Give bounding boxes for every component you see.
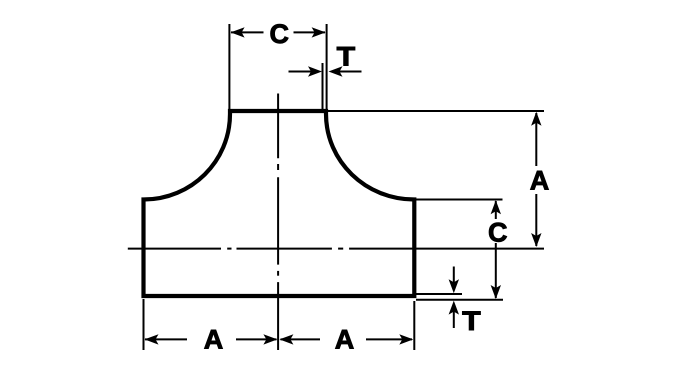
extension line run bottom inner (bottom T)	[416, 293, 462, 295]
bottom A right arrow at center	[263, 334, 277, 344]
bottom A left arrow at center	[279, 334, 293, 344]
right A up arrow	[531, 112, 541, 126]
extension line bottom left A	[143, 299, 145, 350]
extension line from branch top to right A	[328, 110, 544, 112]
right C down arrow	[491, 285, 501, 299]
top T left-pointing arrow	[329, 66, 343, 76]
dimension line top C (two segments with label gap)	[231, 31, 264, 33]
extension line right of top C	[326, 24, 328, 109]
bottom T arrow tails	[453, 267, 455, 286]
svg-text:C: C	[488, 217, 508, 247]
top C left arrow	[231, 27, 245, 37]
thin lines	[128, 24, 544, 350]
right A down arrow	[531, 233, 541, 247]
right C up arrow	[491, 200, 501, 214]
horizontal centerline (dash-dot)	[128, 248, 221, 250]
top C right arrow	[312, 27, 326, 37]
bottom A left arrow outer-left	[145, 334, 159, 344]
svg-text:A: A	[204, 325, 224, 355]
bottom T down arrow	[449, 279, 459, 293]
bottom A right arrow outer-right	[399, 334, 413, 344]
dimension line right C (two segments with label gap)	[495, 201, 497, 219]
arrowheads	[145, 27, 542, 344]
extension line run top to right C	[416, 199, 503, 201]
bottom T up arrow	[449, 301, 459, 315]
dimension line bottom A A (segments with label gaps)	[145, 338, 187, 340]
tee body outline	[141, 111, 416, 298]
top T arrow tails	[289, 71, 314, 73]
svg-text:A: A	[335, 325, 355, 355]
extension line left of top C	[228, 24, 230, 109]
vertical centerline (dash-dot)	[277, 94, 279, 159]
extension line inner branch wall (top T)	[322, 63, 324, 109]
extension line run bottom outer (right C / bottom T)	[416, 299, 503, 301]
dimension line right A (two segments with label gap)	[535, 113, 537, 166]
svg-text:C: C	[270, 19, 290, 49]
svg-text:A: A	[530, 166, 550, 196]
top T right-pointing arrow	[308, 66, 322, 76]
svg-text:T: T	[337, 42, 356, 72]
svg-text:T: T	[462, 306, 481, 336]
extension line bottom right	[413, 301, 415, 350]
